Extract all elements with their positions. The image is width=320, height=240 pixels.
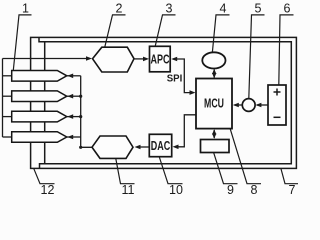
leader 3 bbox=[155, 15, 175, 46]
arrowhead into pin 3 bbox=[67, 114, 73, 119]
arrowhead into hexagon 11 right point bbox=[135, 145, 141, 150]
junction dot bus corner bbox=[79, 146, 82, 149]
inner board border bbox=[39, 37, 291, 168]
outer enclosure border 7 bbox=[31, 37, 297, 168]
connector pin 1 bbox=[12, 71, 67, 82]
wire battery to circle bbox=[257, 104, 268, 106]
arrowhead into pin 1 bbox=[67, 74, 73, 79]
arrowhead into pin 2 bbox=[67, 94, 73, 99]
arrowhead up into MCU bottom bbox=[212, 129, 216, 134]
svg-text:10: 10 bbox=[169, 183, 183, 197]
MCU box 8 bbox=[196, 79, 232, 129]
battery box 6 bbox=[268, 85, 286, 125]
wire DAC to hexagon 11 bbox=[138, 146, 149, 148]
leader 9 bbox=[214, 153, 238, 184]
svg-text:2: 2 bbox=[116, 2, 123, 16]
svg-text:7: 7 bbox=[289, 183, 296, 197]
inner border left edge bbox=[44, 42, 46, 164]
output bus tap row 4 bbox=[67, 136, 81, 138]
driver box 9 bbox=[201, 140, 230, 153]
ladder rung pin 2 bbox=[3, 95, 12, 97]
leader 10 bbox=[159, 157, 182, 184]
arrowhead into APC left bbox=[143, 57, 149, 62]
svg-text:11: 11 bbox=[122, 183, 135, 197]
wire MCU left lower to DAC bbox=[175, 115, 197, 147]
leader 1 bbox=[13, 15, 31, 70]
junction dot row 3 bbox=[79, 115, 82, 118]
svg-text:1: 1 bbox=[22, 2, 29, 16]
leader 8 bbox=[230, 129, 261, 184]
output bus vertical bbox=[81, 76, 92, 148]
link MCU to ellipse bbox=[213, 70, 215, 78]
connector left ladder bus bbox=[2, 59, 4, 138]
junction dot row 2 bbox=[79, 95, 82, 98]
leader 2 bbox=[105, 15, 126, 47]
hexagon filter 11 bbox=[92, 136, 133, 158]
svg-text:SPI: SPI bbox=[167, 73, 183, 84]
wire SPI bus from APC right bbox=[173, 59, 193, 93]
wire hexagon 2 to APC bbox=[134, 58, 146, 60]
wire input bus to hexagon 2 bbox=[3, 58, 90, 60]
battery minus sign bbox=[274, 116, 281, 118]
connector pin 2 bbox=[12, 91, 67, 102]
arrowhead into MCU right bbox=[233, 103, 239, 108]
leader 7 bbox=[281, 169, 298, 184]
svg-text:MCU: MCU bbox=[204, 97, 224, 111]
arrowhead into circle right bbox=[255, 103, 261, 108]
svg-text:6: 6 bbox=[284, 2, 291, 16]
link MCU to box 9 bbox=[213, 130, 215, 138]
DAC box bbox=[149, 134, 171, 156]
leader 12 bbox=[34, 168, 55, 184]
arrowhead into hexagon 2 bbox=[86, 56, 92, 61]
arrowhead up into ellipse bbox=[212, 69, 216, 74]
output bus tap row 2 bbox=[67, 95, 81, 97]
arrowhead into APC right bbox=[171, 57, 177, 62]
output bus tap row 1 bbox=[67, 75, 81, 77]
svg-text:12: 12 bbox=[41, 183, 55, 197]
regulator circle 5 bbox=[242, 99, 255, 112]
leader 5 bbox=[249, 15, 265, 99]
arrowhead into DAC right bbox=[173, 145, 179, 150]
arrowhead into MCU left upper bbox=[190, 90, 196, 95]
ladder rung pin 3 bbox=[3, 116, 12, 118]
arrowhead down into box 9 bbox=[212, 134, 216, 139]
leader 4 bbox=[212, 15, 229, 52]
ladder rung pin 4 bbox=[3, 136, 12, 138]
svg-text:4: 4 bbox=[220, 2, 227, 16]
connector pin 4 bbox=[12, 132, 67, 143]
ladder rung pin 1 bbox=[3, 75, 12, 77]
wire circle to MCU right bbox=[235, 104, 243, 106]
leader 6 bbox=[279, 15, 294, 85]
leader 11 bbox=[116, 159, 135, 184]
svg-text:APC: APC bbox=[151, 53, 170, 67]
arrowhead into pin 4 bbox=[67, 135, 73, 140]
svg-text:3: 3 bbox=[166, 2, 173, 16]
arrowhead down into MCU top bbox=[212, 73, 216, 78]
svg-text:8: 8 bbox=[251, 183, 258, 197]
svg-text:9: 9 bbox=[227, 183, 234, 197]
svg-text:DAC: DAC bbox=[151, 140, 171, 154]
oscillator ellipse 4 bbox=[202, 52, 225, 68]
battery plus sign bbox=[274, 91, 281, 93]
hexagon filter 2 bbox=[93, 47, 135, 72]
connector pin 3 bbox=[12, 111, 67, 122]
output bus tap row 3 bbox=[67, 116, 81, 118]
svg-text:5: 5 bbox=[255, 2, 262, 16]
APC box U3 bbox=[150, 46, 171, 72]
